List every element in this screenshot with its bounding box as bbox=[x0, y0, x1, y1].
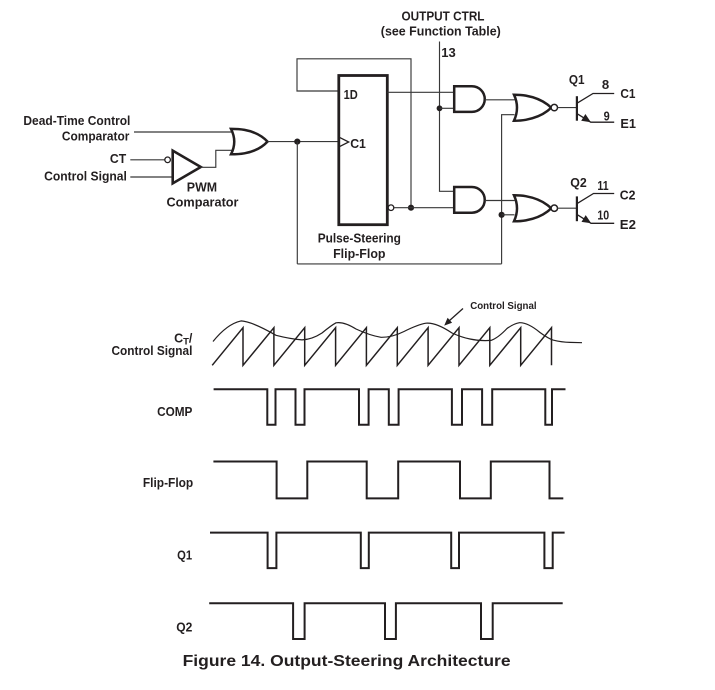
svg-text:Control Signal: Control Signal bbox=[44, 170, 127, 184]
svg-text:Dead-Time Control: Dead-Time Control bbox=[23, 114, 130, 128]
svg-text:Control Signal: Control Signal bbox=[112, 344, 193, 358]
svg-text:Comparator: Comparator bbox=[167, 196, 239, 210]
wire: NOR2 output to Q2 base bbox=[558, 207, 577, 209]
waveform: Q2 bbox=[209, 603, 563, 639]
label: Dead-Time Control Comparator bbox=[23, 114, 130, 143]
label: Pulse-Steering Flip-Flop bbox=[318, 232, 401, 261]
label: CT / Control Signal axis bbox=[112, 331, 193, 358]
label: PWM Comparator bbox=[167, 180, 239, 209]
svg-text:PWM: PWM bbox=[187, 180, 217, 194]
svg-text:Q1: Q1 bbox=[569, 73, 585, 87]
svg-text:Q1: Q1 bbox=[177, 549, 192, 563]
svg-text:CT: CT bbox=[110, 152, 127, 166]
waveform: Flip-Flop bbox=[213, 462, 563, 499]
Qbar output bubble bbox=[388, 205, 394, 211]
wire: riser to NOR2 lower input bbox=[502, 214, 515, 216]
comparator U1 PWM comparator triangle bbox=[173, 151, 201, 184]
wire: CT to inverting bubble bbox=[130, 159, 164, 161]
waveform: CT sawtooth bbox=[212, 328, 551, 366]
waveform: Q1 bbox=[210, 533, 565, 569]
svg-text:C1: C1 bbox=[350, 137, 366, 151]
svg-text:Pulse-Steering: Pulse-Steering bbox=[318, 232, 401, 246]
svg-text:8: 8 bbox=[602, 78, 609, 92]
NOR2 output bubble bbox=[551, 205, 557, 211]
junction: feedback at Qbar output bbox=[408, 205, 414, 211]
flip-flop U3 pulse-steering flip-flop box bbox=[339, 76, 388, 225]
svg-text:Flip-Flop: Flip-Flop bbox=[333, 247, 386, 261]
annotation arrow bbox=[444, 309, 463, 326]
wire: clock node down to bottom rail bbox=[296, 142, 298, 264]
nor-gate U5 NOR1 bbox=[514, 95, 551, 121]
svg-text:COMP: COMP bbox=[157, 405, 192, 419]
wire: AND1 output to NOR1 upper input bbox=[485, 99, 515, 101]
clock input triangle bbox=[340, 137, 349, 146]
junction: pin 13 to AND1 lower input bbox=[437, 105, 443, 111]
wire: Q output to AND1 upper input bbox=[387, 91, 454, 93]
svg-text:(see Function Table): (see Function Table) bbox=[381, 25, 501, 39]
wire: to AND1 lower input bbox=[440, 107, 455, 109]
or-gate U2 bbox=[231, 129, 268, 154]
and-gate U4 AND1 bbox=[454, 86, 485, 112]
svg-text:9: 9 bbox=[604, 109, 610, 123]
svg-text:Figure 14. Output-Steering Arc: Figure 14. Output-Steering Architecture bbox=[183, 653, 511, 670]
svg-text:13: 13 bbox=[441, 46, 456, 60]
nor-gate U7 NOR2 bbox=[514, 195, 551, 221]
svg-text:E1: E1 bbox=[620, 117, 636, 131]
and-gate U6 AND2 bbox=[454, 187, 485, 213]
svg-text:Q2: Q2 bbox=[570, 176, 587, 190]
svg-text:Comparator: Comparator bbox=[62, 129, 130, 143]
transistor Q1 bbox=[577, 94, 614, 123]
wire: NOR1 output to Q1 base bbox=[558, 107, 577, 109]
wire: pin 13 vertical into AND2 upper input bbox=[440, 42, 455, 192]
svg-text:11: 11 bbox=[597, 179, 608, 193]
svg-text:Control Signal: Control Signal bbox=[470, 301, 537, 312]
wire: control signal input to comparator bbox=[130, 176, 173, 178]
svg-text:E2: E2 bbox=[620, 218, 636, 232]
wire: riser to NOR1 lower input bbox=[502, 115, 515, 264]
svg-text:OUTPUT CTRL: OUTPUT CTRL bbox=[402, 9, 485, 23]
wire: Qbar to AND2 lower input bbox=[394, 207, 455, 209]
svg-text:Flip-Flop: Flip-Flop bbox=[143, 476, 194, 490]
junction: riser to NOR2 bbox=[499, 212, 505, 218]
NOR1 output bubble bbox=[551, 104, 557, 110]
wire: dead-time comparator to OR gate bbox=[134, 131, 236, 133]
wire: AND2 output to NOR2 upper input bbox=[485, 200, 515, 202]
wire: feedback loop Qbar to 1D input bbox=[297, 59, 411, 208]
junction: clock node bbox=[294, 139, 300, 145]
inverting input bubble bbox=[165, 157, 171, 163]
waveform: control signal curve bbox=[213, 321, 582, 343]
svg-text:Q2: Q2 bbox=[176, 621, 192, 635]
wire: bottom rail bbox=[297, 263, 501, 265]
svg-text:C2: C2 bbox=[620, 188, 636, 202]
svg-text:1D: 1D bbox=[344, 88, 358, 102]
svg-text:10: 10 bbox=[597, 209, 609, 223]
wire: OR output to clock node and flip-flop clock input bbox=[268, 141, 339, 143]
wire: comparator output to OR gate lower input bbox=[201, 150, 236, 167]
waveform: COMP bbox=[214, 389, 566, 425]
transistor Q2 bbox=[577, 194, 614, 224]
svg-text:C1: C1 bbox=[620, 87, 635, 101]
